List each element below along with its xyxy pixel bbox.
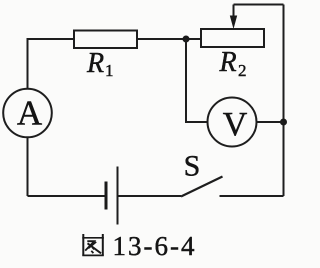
svg-text:R: R (219, 47, 237, 78)
svg-text:13-6-4: 13-6-4 (113, 231, 197, 261)
svg-text:1: 1 (105, 61, 114, 80)
node: junction dot left of R2 (183, 36, 190, 43)
rheostat R2 body (201, 29, 264, 47)
node: junction dot right of voltmeter (280, 119, 287, 126)
svg-text:S: S (184, 150, 201, 183)
voltmeter V (208, 98, 257, 147)
resistor R1 (74, 31, 137, 49)
svg-text:V: V (223, 106, 248, 143)
ammeter A (3, 89, 52, 138)
wire: right vertical (283, 5, 285, 197)
wire: voltmeter right to junction (257, 121, 284, 123)
wire: wiper top horizontal to right side (234, 4, 284, 6)
wire: top-left corner, left vertical upper + top horizontal to R1 (28, 39, 75, 89)
wire: voltmeter branch from junction down and right (186, 39, 208, 122)
wire: battery to switch (118, 195, 182, 197)
battery: long thin plate (positive) (117, 167, 119, 225)
wiper arrow of R2 (230, 5, 237, 30)
svg-text:2: 2 (238, 61, 247, 80)
battery: short thick plate (negative) (105, 182, 108, 210)
svg-text:R: R (86, 48, 104, 79)
switch S lever (open) (181, 177, 223, 197)
wire: R1 to R2 horizontal (137, 38, 201, 40)
wire: left vertical lower (27, 138, 29, 197)
caption character tu (figure) drawn as strokes (82, 234, 104, 256)
wire: bottom left to battery (28, 195, 107, 197)
svg-text:A: A (17, 94, 43, 133)
wire: switch right contact to bottom-right corner (220, 195, 284, 197)
